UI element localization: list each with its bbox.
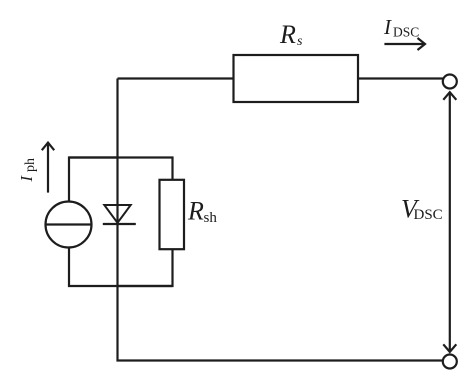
svg-text:ph: ph xyxy=(23,158,38,172)
svg-text:DSC: DSC xyxy=(414,207,443,223)
svg-text:DSC: DSC xyxy=(393,25,419,40)
svg-text:R: R xyxy=(187,197,204,226)
svg-text:sh: sh xyxy=(204,210,218,226)
svg-text:R: R xyxy=(279,20,296,49)
svg-text:I: I xyxy=(17,175,36,183)
svg-text:s: s xyxy=(297,34,303,49)
svg-text:I: I xyxy=(383,15,392,39)
